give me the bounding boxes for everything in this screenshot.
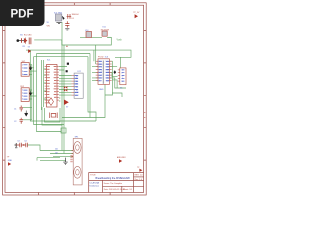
svg-text:C3: C3: [17, 140, 19, 142]
svg-text:CC-BY-SA: CC-BY-SA: [90, 182, 100, 185]
svg-text:freetronics: freetronics: [90, 184, 99, 187]
speaker SP1 oval bottom: [74, 166, 81, 178]
WIRES: [23, 22, 131, 161]
title block rev cell divider: [134, 176, 144, 178]
LED1 symbol: [24, 38, 27, 44]
title block date/sheet divider: [121, 186, 123, 192]
header SV2 pin names: [22, 90, 23, 101]
IC1 pin names right: [54, 67, 57, 98]
wire IC1 left pin rails: [41, 60, 43, 110]
wire connector nets: [105, 61, 126, 97]
wire vertical rail x30: [30, 50, 96, 121]
svg-text:2: 2: [22, 68, 23, 70]
title block row divider 2: [103, 185, 144, 187]
net label tiny mid: [66, 45, 68, 47]
wire right rail x90: [89, 54, 91, 118]
junction dot: [23, 144, 24, 145]
IC1 diamond mark: [49, 98, 54, 106]
capacitor C2 symbol: [20, 118, 24, 124]
power flag node B: [66, 70, 68, 72]
svg-text:Sheet: 1/1: Sheet: 1/1: [123, 188, 133, 191]
IC3 body: [98, 59, 109, 85]
wire mid rail x64: [63, 45, 65, 154]
connector X1 pin names: [122, 70, 123, 83]
header SV1 pin names: [22, 64, 23, 76]
wire vertical x31.8: [31, 65, 33, 120]
svg-text:3: 3: [22, 96, 23, 98]
IC3 pin names left: [99, 61, 104, 83]
wire header SV1 stubs: [29, 65, 36, 75]
IC1 body: [47, 65, 58, 108]
block IC2 pin names: [75, 75, 80, 97]
wire vertical rail x33.6: [34, 57, 64, 125]
speaker SP1 oval top: [74, 142, 81, 154]
speaker pin labels: [70, 156, 72, 162]
svg-text:1: 1: [22, 90, 23, 92]
crystal bowtie Y1: [64, 86, 67, 92]
connector X1 pin name dashes: [122, 70, 125, 81]
battery B1 blob: [17, 39, 20, 42]
wire header SV2 stubs: [29, 90, 36, 99]
wire IC3 top rails: [94, 45, 96, 64]
header SV1 body: [21, 63, 29, 77]
wire crystal box outer: [42, 107, 62, 125]
IC1 right pins: [57, 67, 59, 101]
block IC2 body: [74, 73, 83, 98]
connector X1 pins: [118, 70, 120, 81]
red arrow lower: [64, 100, 69, 106]
capacitor C3 symbol: [16, 143, 23, 147]
regulator IC5 body: [55, 14, 61, 21]
svg-text:A2: A2: [55, 151, 57, 154]
header SV2 body: [21, 88, 29, 102]
wire IC1 left pin stubs: [44, 69, 47, 99]
diode D1 symbol: [67, 14, 72, 19]
svg-text:1N4004: 1N4004: [72, 14, 80, 16]
battery B1 lead: [17, 40, 26, 42]
regulator IC4 body: [86, 32, 92, 38]
wire right rail x88: [88, 57, 96, 121]
title block col divider rev: [133, 173, 135, 193]
wire connector top stub: [120, 57, 122, 68]
speaker SP1 oval top inner: [76, 145, 80, 150]
regulator output arrow: [62, 16, 65, 20]
PDF badge: [0, 0, 45, 26]
block IC2 pin name dashes: [75, 76, 78, 96]
svg-text:GND: GND: [8, 160, 13, 162]
test point TP2 flag: [119, 159, 122, 163]
resistor R2 bars: [29, 38, 31, 45]
wire cap C1 stub: [23, 107, 32, 109]
title block row divider 1: [89, 179, 144, 181]
power diamond node right: [114, 70, 117, 74]
test point TP1 flag: [8, 162, 11, 166]
wire vertical rail x36.5: [37, 54, 62, 132]
right border row marks: [144, 113, 145, 118]
svg-text:C1: C1: [14, 109, 16, 111]
wire cap pair to speaker: [27, 145, 40, 151]
wire net rail y53: [37, 53, 91, 55]
wire green node box: [61, 128, 66, 133]
frame top ticks: [39, 3, 111, 5]
crystal Q1 body: [50, 113, 58, 119]
title block outline: [89, 173, 144, 193]
gnd arrow between caps: [25, 111, 28, 117]
connector X1 body: [120, 68, 126, 85]
svg-text:Breadboarding the ATMEGA328: Breadboarding the ATMEGA328: [96, 177, 131, 180]
TITLE BLOCK: [89, 173, 144, 193]
header SV1 gnd arrow: [29, 66, 31, 71]
regulator IC6 body: [102, 31, 107, 36]
wire cap C2 stub: [23, 119, 32, 121]
frame outer border: [3, 3, 147, 195]
wire net top run y40: [34, 37, 111, 45]
wire right box h117: [62, 84, 105, 117]
speaker SP1 body: [73, 138, 82, 185]
svg-text:PDF: PDF: [11, 9, 34, 21]
wire bottom wrap 1: [37, 158, 66, 161]
speaker pin stubs: [72, 151, 74, 157]
test point TP3 flag: [139, 169, 142, 172]
switch S1 bar: [21, 38, 23, 43]
header SV2 gnd arrow: [29, 91, 31, 96]
svg-text:TP_5V: TP_5V: [133, 12, 140, 14]
svg-text:1: 1: [22, 64, 23, 66]
wire IC1 right upper stubs: [59, 67, 67, 71]
power flag node A: [67, 63, 69, 65]
svg-text:ARDUINO: ARDUINO: [117, 156, 126, 159]
wire 5V reg right stub: [107, 36, 111, 38]
wire mid rail x62: [61, 22, 63, 151]
capacitor C1 symbol: [20, 106, 24, 112]
net arrow symbol: [28, 50, 31, 53]
IC3 pin name dashes right: [106, 61, 109, 81]
IC1 pin names left: [47, 67, 50, 103]
svg-text:3: 3: [22, 71, 23, 73]
wire net rail y50: [30, 50, 131, 57]
header SV2 pin name dashes: [23, 90, 27, 99]
svg-text:4: 4: [22, 99, 23, 101]
svg-text:FT232: FT232: [98, 56, 103, 58]
svg-text:Drawn: The Complete: Drawn: The Complete: [104, 182, 122, 185]
capacitor C5 symbol: [65, 21, 69, 27]
wire speaker pin1: [40, 150, 73, 152]
wire IC1 to block horizontals: [59, 76, 72, 96]
wire IC3 left stubs: [92, 67, 98, 81]
wire IC1 right lower stubs: [59, 98, 60, 101]
IC3 pin name dashes left: [99, 61, 102, 81]
svg-text:GND: GND: [99, 89, 104, 91]
block IC2 left pins: [72, 76, 75, 96]
ground below speaker pins: [63, 158, 67, 165]
svg-text:A1: A1: [55, 148, 57, 151]
wire 5V reg left stub: [80, 36, 102, 38]
IC1 left pins: [45, 67, 47, 103]
IC3 pin numbers strip: [102, 61, 104, 84]
svg-text:C2: C2: [14, 121, 16, 123]
ground under regulator: [56, 22, 61, 23]
speaker SP1 oval bottom inner: [76, 170, 80, 175]
capacitor C4 symbol: [24, 143, 28, 147]
title block col divider left: [102, 180, 104, 192]
svg-text:C4: C4: [24, 140, 26, 142]
wire IC3 right stubs: [109, 61, 117, 78]
wire speaker pin3: [53, 156, 73, 158]
frame inner border: [5, 5, 144, 192]
ground left of C3: [15, 143, 18, 148]
wire LED stub: [26, 49, 30, 51]
svg-text:REV: 1.0: REV: 1.0: [135, 175, 144, 177]
IC3 left pins: [96, 61, 98, 80]
wire speaker pin2: [50, 153, 73, 155]
capacitor C5 ground: [65, 29, 69, 30]
svg-text:Rev: 1.0: Rev: 1.0: [135, 179, 143, 181]
header SV1 pin name dashes: [23, 65, 27, 75]
svg-text:2: 2: [22, 93, 23, 95]
frame left ticks: [3, 31, 5, 161]
wire net rail y56: [34, 56, 88, 58]
svg-text:Vusb: Vusb: [117, 40, 123, 42]
svg-text:4: 4: [22, 74, 23, 76]
frame bottom ticks: [39, 193, 111, 195]
test point TP5V flag: [135, 14, 138, 18]
IC3 right pins: [109, 61, 111, 80]
IC3 pin names right: [106, 61, 111, 83]
wire crystal box inner: [45, 108, 61, 122]
svg-text:Red LED: Red LED: [24, 34, 32, 36]
frame right ticks: [144, 31, 147, 161]
